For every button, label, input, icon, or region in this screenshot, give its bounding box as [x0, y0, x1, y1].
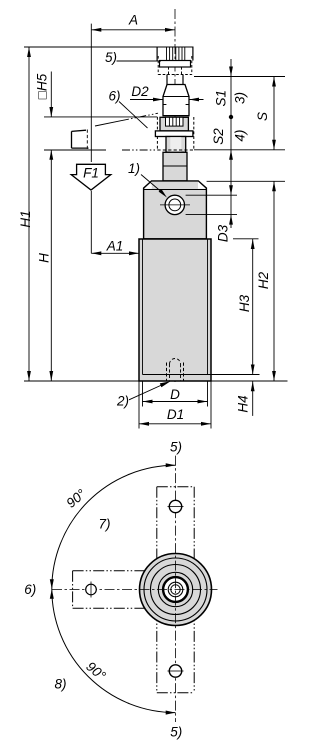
svg-text:4): 4)	[233, 130, 248, 142]
hole left 6)	[86, 584, 97, 595]
top extension line (top position of spindle)	[24, 46, 194, 48]
dimension D1	[139, 381, 211, 429]
svg-text:D1: D1	[167, 407, 184, 422]
dimension A1	[91, 252, 139, 254]
arrowheads side view	[27, 28, 276, 426]
D1 arrows	[139, 422, 149, 426]
S arrows	[272, 77, 276, 87]
svg-text:7): 7)	[98, 517, 110, 532]
svg-text:D2: D2	[131, 84, 149, 99]
swing arc 90+90	[52, 465, 176, 712]
S2 bottom arrow	[229, 150, 233, 160]
svg-text:H3: H3	[237, 294, 252, 312]
plan centerline vertical	[175, 456, 177, 722]
D3 arrows	[229, 185, 233, 195]
arm hidden square (clamping position)	[157, 117, 193, 150]
leader 2) arrow	[160, 381, 171, 387]
svg-text:H4: H4	[236, 395, 251, 412]
svg-text:F1: F1	[83, 166, 99, 181]
head rim line	[144, 189, 207, 191]
baseline	[24, 380, 288, 382]
arm stub break line	[86, 130, 88, 150]
bottom thread hole hidden	[167, 363, 184, 382]
svg-text:8): 8)	[54, 677, 66, 692]
head block	[144, 181, 207, 239]
H4 arrow	[251, 381, 255, 391]
dimension D	[143, 381, 208, 407]
svg-text:H1: H1	[18, 210, 33, 227]
S1/S2 junction dot	[229, 115, 233, 119]
A1 arrows	[91, 251, 101, 255]
H3 arrows	[251, 239, 255, 249]
arm phantom top slant	[95, 121, 121, 126]
arm phantom bottom	[122, 149, 157, 151]
svg-text:D3: D3	[215, 224, 230, 242]
D arrows	[143, 400, 153, 404]
nut thread hatch box	[166, 117, 184, 126]
dimension H1	[28, 47, 30, 381]
screw shank hidden	[169, 67, 182, 75]
dimension H5 top arrow line	[50, 72, 52, 118]
H1 arrows	[27, 47, 31, 57]
leader 5)	[117, 60, 162, 62]
main cylinder body	[139, 239, 211, 381]
hole top 5)	[169, 500, 181, 512]
S1 top arrow	[229, 67, 233, 77]
leader 1) arrow	[159, 189, 167, 198]
head chamfer faces	[144, 182, 152, 189]
F1 force arrow	[71, 164, 111, 190]
H2 arrows	[272, 181, 276, 191]
svg-text:2): 2)	[116, 394, 129, 409]
dimension H2	[273, 181, 275, 381]
svg-text:5): 5)	[170, 440, 182, 455]
D2 block cone line	[163, 96, 189, 98]
svg-text:1): 1)	[128, 161, 140, 176]
svg-text:S1: S1	[214, 90, 229, 107]
arm solid stub (swung position)	[72, 130, 89, 148]
arm end cap (top position) solid sides	[157, 47, 193, 61]
S1/S2/D3 chain line	[230, 59, 232, 228]
svg-text:3): 3)	[233, 92, 248, 104]
svg-text:H2: H2	[256, 271, 271, 289]
dimension H3	[252, 239, 254, 375]
hole bottom 5)	[169, 665, 181, 677]
svg-text:5): 5)	[170, 725, 182, 740]
svg-text:6): 6)	[108, 89, 120, 104]
clamp arm (top position) hidden outline	[158, 56, 192, 75]
svg-text:H: H	[37, 253, 52, 263]
inner sleeve lines	[143, 239, 208, 375]
svg-text:5): 5)	[105, 50, 117, 65]
spindle D2 block	[163, 85, 189, 116]
plan centerline horizontal	[52, 589, 218, 591]
washer (top position)	[160, 61, 191, 68]
dimension S	[273, 77, 275, 150]
rod collar	[163, 152, 187, 181]
H5 extension stubs	[44, 117, 157, 150]
D2 thread relief ticks	[163, 104, 189, 106]
svg-text:A1: A1	[106, 239, 124, 254]
svg-text:S: S	[255, 112, 270, 121]
right extension lines	[194, 76, 285, 78]
port circle 1)	[165, 195, 184, 214]
A arrows	[91, 28, 101, 32]
H5 arrow	[49, 107, 53, 117]
svg-text:S2: S2	[211, 128, 226, 145]
svg-text:6): 6)	[24, 582, 36, 597]
D2 arrows	[153, 98, 163, 102]
dimension H	[50, 150, 52, 381]
plan vertical arm strip (phantom)	[157, 487, 194, 693]
plan horizontal arm strip (phantom)	[73, 571, 152, 608]
svg-text:□H5: □H5	[35, 73, 50, 99]
extension line arm tip axis	[90, 30, 92, 162]
svg-text:A: A	[128, 13, 138, 28]
nut	[160, 117, 188, 131]
dimension D2 lines	[130, 99, 204, 101]
leader 6)	[119, 102, 148, 129]
arc arrowheads	[50, 463, 176, 714]
leader 2)	[129, 384, 165, 400]
piston rod	[166, 137, 186, 153]
spindle cap stub	[167, 75, 183, 86]
clamp arm thread hatch	[167, 47, 185, 60]
leader 1)	[141, 175, 161, 192]
washer lower	[155, 131, 193, 137]
centerline main vertical	[174, 9, 176, 382]
H arrows	[49, 150, 53, 160]
svg-text:D: D	[170, 387, 180, 402]
dimension A	[91, 24, 175, 30]
big circle body rings	[140, 554, 212, 626]
dimension H4	[252, 381, 254, 416]
